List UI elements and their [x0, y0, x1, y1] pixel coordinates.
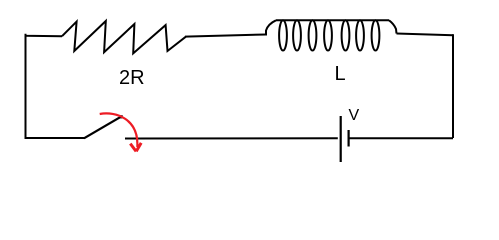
inductor L loop 2: [293, 20, 301, 50]
inductor L lead-out jog: [389, 20, 397, 33]
wire top-left horizontal: [25, 34, 63, 37]
inductor L loop 6: [356, 20, 364, 50]
battery V short plate: [348, 130, 350, 147]
wire top middle: [185, 35, 266, 37]
wire bottom middle (battery to switch): [125, 137, 338, 139]
svg-text:2R: 2R: [119, 67, 145, 89]
inductor L loop 3: [309, 20, 317, 50]
wire right vertical: [452, 34, 454, 138]
battery V long plate: [340, 116, 342, 162]
inductor L top line: [276, 19, 389, 21]
wire bottom left: [25, 137, 85, 139]
wire left vertical: [25, 35, 27, 138]
wire top right: [397, 34, 454, 36]
inductor L lead-in jog: [266, 20, 276, 35]
inductor L loop 5: [342, 20, 350, 50]
inductor L loop 4: [324, 20, 332, 50]
red actuation arrow head: [130, 143, 141, 152]
inductor L loop 7: [372, 20, 380, 50]
svg-text:L: L: [335, 63, 346, 85]
inductor L loop 1: [279, 20, 287, 50]
svg-text:V: V: [349, 107, 360, 124]
switch arm: [84, 117, 121, 139]
resistor 2R: [62, 21, 186, 53]
switch contact dot: [120, 115, 123, 118]
wire bottom right: [349, 137, 453, 139]
red actuation arrow arc: [100, 113, 138, 147]
